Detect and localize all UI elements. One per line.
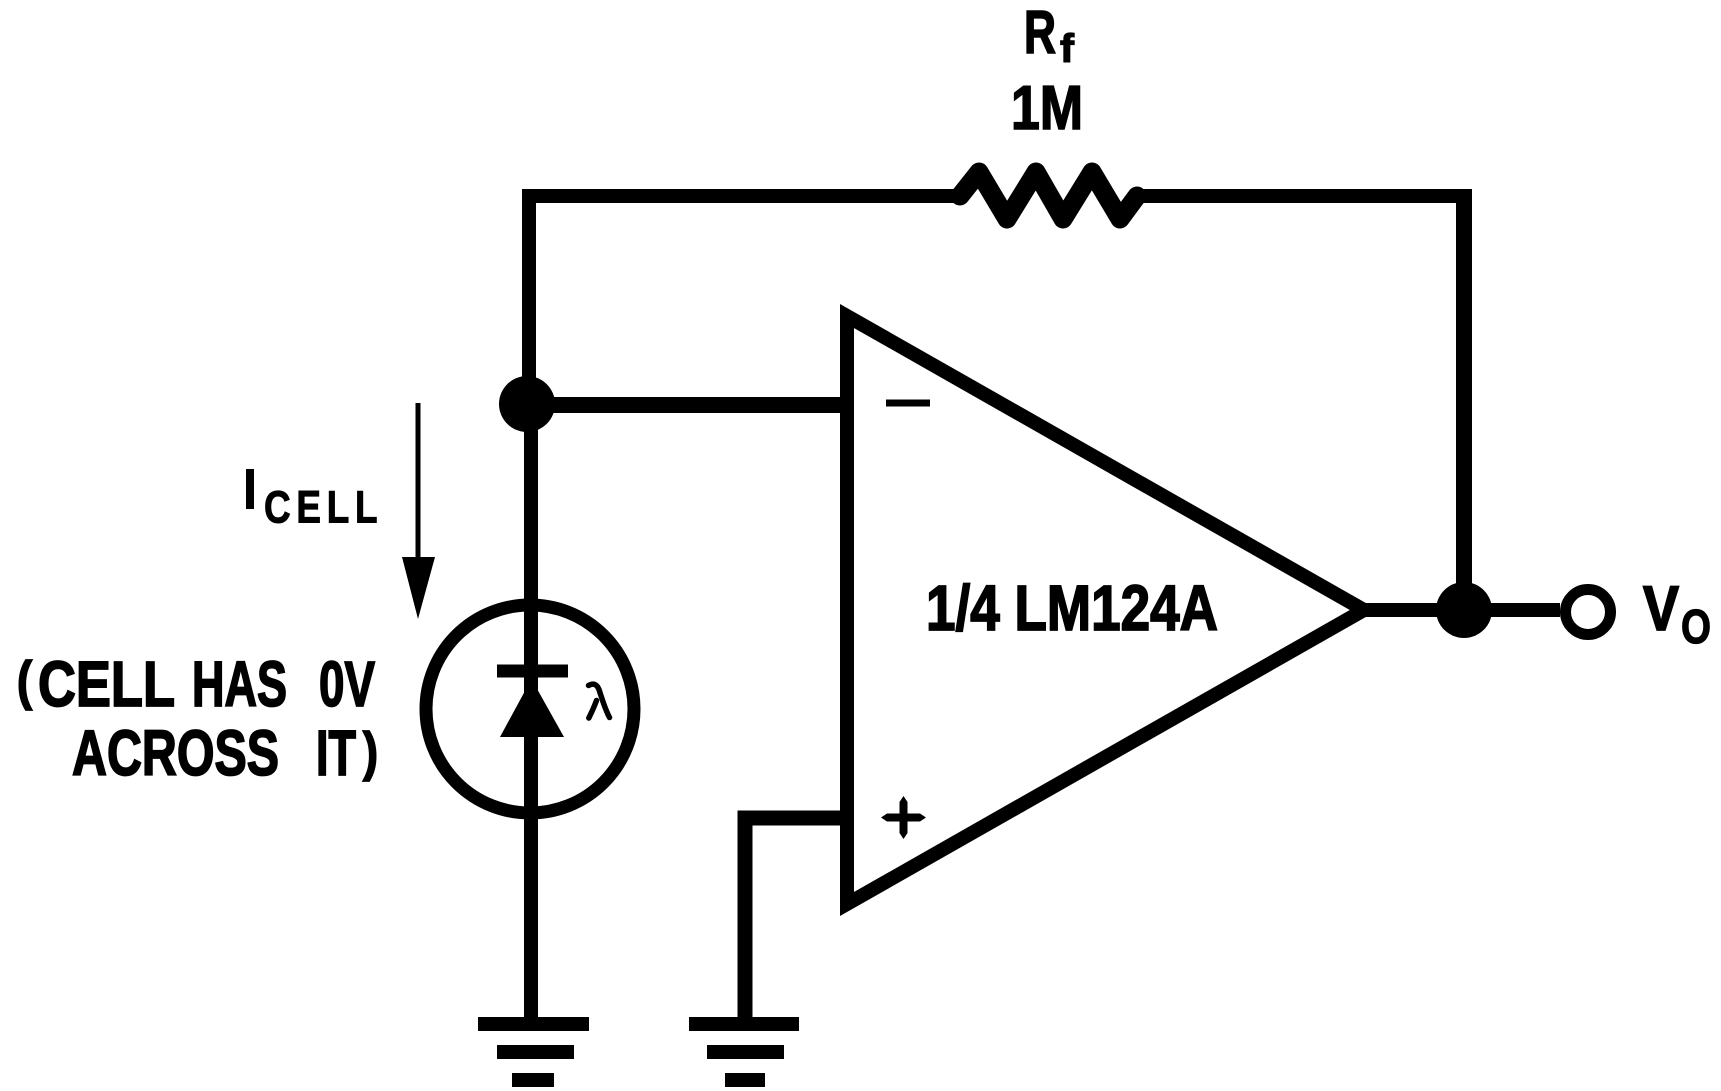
node A junction dot (499, 376, 555, 432)
ground GND2 bar 1 (689, 1017, 799, 1031)
photodiode D1 anode triangle (500, 679, 564, 737)
svg-text:IT: IT (316, 717, 356, 789)
svg-text:O: O (1681, 601, 1711, 654)
ground GND2 bar 2 (707, 1045, 784, 1059)
svg-text:1M: 1M (1011, 74, 1083, 143)
output node junction dot (1436, 582, 1492, 638)
label CELL subscript (264, 482, 383, 532)
svg-text:V: V (1643, 574, 1679, 644)
op-amp minus input symbol (886, 400, 930, 407)
wire: top rail right segment and right vertical drop to output node (1137, 189, 1472, 203)
wire: output from op-amp to terminal (1364, 603, 1560, 617)
svg-text:(: ( (17, 651, 32, 711)
ground GND1 bar 3 (512, 1073, 554, 1087)
svg-text:R: R (1024, 0, 1056, 66)
label lambda (589, 684, 610, 717)
svg-text:CELL: CELL (38, 648, 175, 720)
wire: inverting input from node A to op-amp (527, 397, 850, 413)
op-amp plus input symbol (881, 814, 926, 822)
output terminal circle (1566, 590, 1611, 635)
arrow I_CELL (416, 403, 421, 563)
photodiode D1 circle (426, 605, 634, 813)
svg-text:HAS: HAS (192, 648, 287, 720)
wire: left feedback branch (node A up to top rail) (529, 196, 960, 404)
op-amp U1 triangle (847, 316, 1364, 904)
svg-text:f: f (1060, 27, 1075, 71)
svg-text:ACROSS: ACROSS (72, 717, 279, 789)
photodiode D1 cathode bar (497, 665, 568, 678)
ground GND2 bar 3 (725, 1073, 765, 1087)
svg-text:0V: 0V (319, 648, 375, 720)
svg-text:CELL: CELL (264, 482, 383, 532)
svg-text:): ) (363, 722, 378, 782)
svg-text:1/4 LM124A: 1/4 LM124A (926, 572, 1218, 644)
ground GND1 bar 2 (497, 1045, 574, 1059)
resistor R_f zigzag (960, 172, 1137, 219)
wire: non-inverting input and drop to ground (745, 818, 850, 1017)
label I (246, 469, 254, 509)
wire: photodiode branch vertical (524, 404, 538, 1017)
ground GND1 bar 1 (478, 1017, 589, 1031)
